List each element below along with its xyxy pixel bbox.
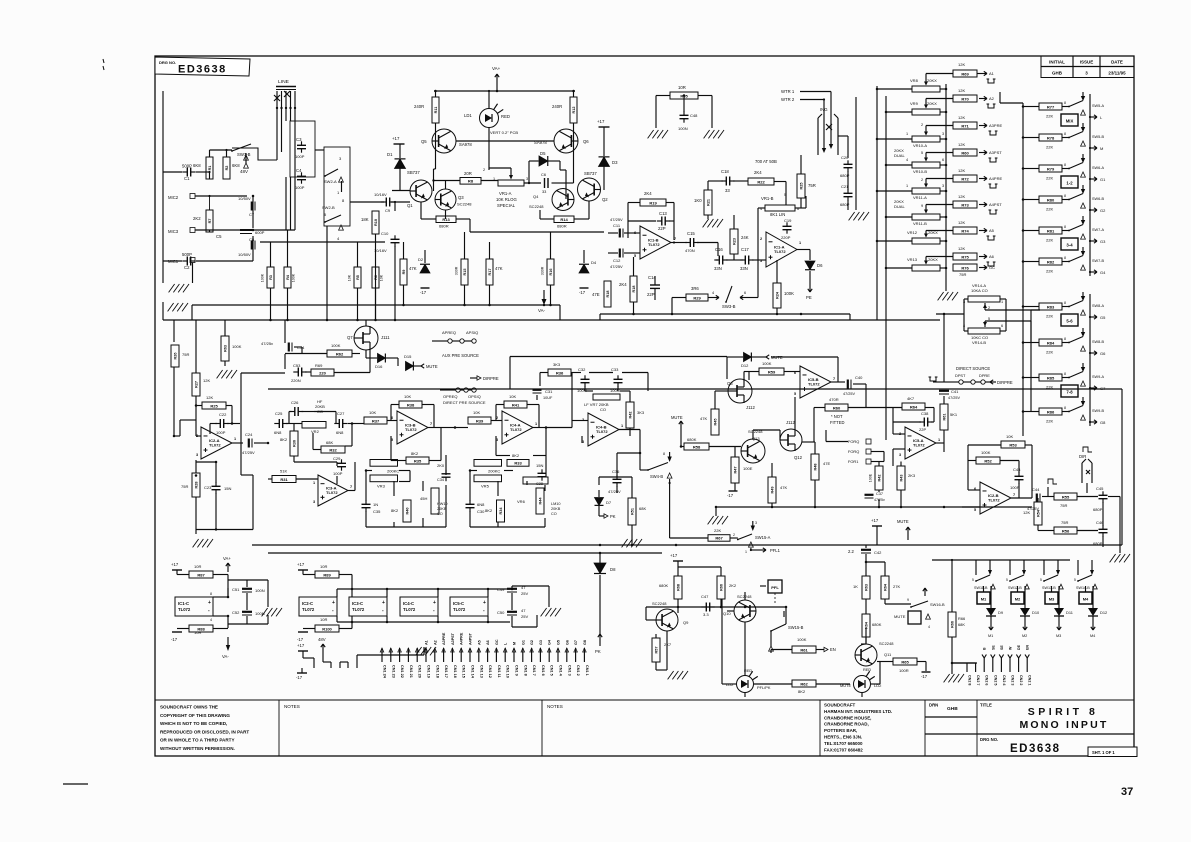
wire led bank feed (951, 559, 953, 612)
wire led bank top rail (932, 559, 1070, 561)
connector CN2 labels (968, 644, 1032, 686)
svg-text:-: - (382, 608, 384, 614)
svg-text:IC5-C: IC5-C (453, 601, 464, 606)
line connector bar (276, 86, 296, 88)
svg-text:DIRPRE: DIRPRE (483, 376, 499, 381)
svg-text:R58: R58 (693, 444, 701, 449)
ground C51 (262, 608, 282, 616)
op-amp IC3-A (313, 475, 352, 506)
svg-text:+: + (332, 600, 335, 606)
svg-text:TL072: TL072 (596, 429, 608, 434)
svg-text:G6: G6 (565, 640, 569, 645)
transistor Q10 (734, 600, 756, 622)
wire led row (722, 599, 850, 684)
junction at 497,91 (496, 90, 499, 93)
svg-text:R31: R31 (280, 477, 288, 482)
svg-text:6: 6 (744, 291, 746, 295)
capacitor C15 (685, 238, 698, 247)
capacitor C33 (614, 375, 623, 386)
wire R85 row (1022, 376, 1069, 378)
svg-text:R100: R100 (322, 626, 332, 631)
wire G5 exit (1089, 315, 1097, 319)
arrow SW3-B right (740, 295, 747, 299)
svg-text:R5: R5 (356, 275, 360, 280)
svg-text:C19: C19 (784, 218, 792, 223)
svg-text:C40: C40 (855, 375, 863, 380)
svg-text:47/25v: 47/25v (261, 341, 273, 346)
svg-text:VA-: VA- (222, 654, 229, 659)
capacitor C19 (783, 222, 792, 233)
svg-text:G8: G8 (1100, 420, 1106, 425)
svg-text:10K: 10K (473, 410, 480, 415)
svg-text:10UF: 10UF (543, 396, 553, 400)
arrow DIRPRE eq (470, 376, 481, 380)
margin tick bottom-left (63, 783, 88, 785)
triangle SW6-A (1081, 172, 1086, 177)
pot VR14-B (968, 328, 1000, 334)
svg-text:100K: 100K (292, 273, 296, 282)
svg-text:8: 8 (1064, 132, 1066, 136)
resistor R22 (748, 178, 774, 185)
title band divider 4 (924, 700, 926, 756)
ground C49 (541, 608, 561, 616)
junction at 1023,411.5 (1022, 410, 1025, 413)
svg-text:LD1: LD1 (464, 113, 472, 118)
svg-text:24K: 24K (741, 235, 749, 240)
wire direct glyph stub (933, 381, 944, 383)
svg-text:240R: 240R (552, 104, 562, 109)
pot VR11-B (912, 207, 940, 220)
rail +17 D3 (599, 126, 610, 128)
op-amp IC3-C (349, 597, 387, 616)
svg-text:8K2: 8K2 (280, 437, 288, 442)
svg-text:2K0: 2K0 (437, 463, 445, 468)
wire IC2-A output (174, 420, 243, 443)
switch SW7-A (1068, 225, 1083, 232)
wire R83 row (1022, 305, 1069, 307)
switch SW3-B (725, 286, 732, 303)
svg-text:2: 2 (760, 237, 762, 241)
power VA- b (226, 637, 230, 651)
svg-text:1K: 1K (853, 584, 858, 589)
pot VR13 (912, 258, 940, 271)
svg-text:7: 7 (833, 377, 835, 381)
net glyph direct (929, 377, 938, 381)
svg-text:LINE: LINE (278, 79, 290, 85)
svg-text:10R: 10R (320, 617, 327, 622)
svg-text:R62: R62 (800, 681, 808, 686)
junction at 1023,342.5 (1022, 341, 1025, 344)
resistor R31 (272, 476, 296, 483)
svg-text:47/25V: 47/25V (948, 396, 961, 400)
svg-text:DIRECT PRE SOURCE: DIRECT PRE SOURCE (443, 400, 486, 405)
svg-text:G2: G2 (1100, 208, 1106, 213)
junction at 228,597 (227, 596, 230, 599)
svg-text:6K8: 6K8 (232, 163, 240, 168)
svg-text:10K RLOG: 10K RLOG (496, 197, 517, 202)
ground output (1110, 554, 1130, 562)
connector CN1 labels (383, 665, 589, 679)
junction at 1023,168.5 (1022, 167, 1025, 170)
svg-text:R36: R36 (556, 370, 564, 375)
svg-text:68K: 68K (326, 440, 333, 445)
svg-text:680R: 680R (557, 224, 567, 229)
junction at 387,589 (386, 588, 389, 591)
svg-text:CN1 13: CN1 13 (479, 665, 483, 678)
svg-text:SW7-B: SW7-B (1092, 259, 1104, 263)
wire G6 exit (1089, 351, 1097, 355)
svg-text:R7: R7 (208, 219, 212, 224)
svg-text:SW11-B: SW11-B (974, 586, 988, 590)
svg-text:R45: R45 (713, 419, 717, 426)
svg-text:R26: R26 (173, 353, 177, 360)
wire Q5 Q2 collectors (434, 129, 574, 199)
jumper APREQ/APSIQ (432, 339, 476, 343)
wire R55 row (1042, 487, 1098, 497)
wire R11 column (435, 91, 437, 129)
capacitor C26 (290, 407, 303, 416)
svg-text:47/25V: 47/25V (610, 217, 623, 222)
capacitor C24 (249, 439, 252, 448)
svg-text:R69: R69 (961, 71, 969, 76)
capacitor C14 22P (650, 276, 660, 300)
wire R87 row (177, 570, 228, 597)
capacitor C1 (182, 168, 195, 177)
junction at 1023,377.5 (1022, 376, 1025, 379)
svg-text:10/16V: 10/16V (374, 248, 387, 253)
svg-text:VR10-A: VR10-A (913, 143, 927, 148)
svg-text:R19: R19 (649, 200, 657, 205)
svg-text:MUTE: MUTE (840, 683, 851, 688)
svg-text:220N: 220N (291, 378, 301, 383)
wire R61 column (943, 396, 945, 452)
resistor R88 (189, 625, 213, 632)
svg-text:C47: C47 (701, 594, 709, 599)
svg-text:7: 7 (674, 237, 676, 241)
svg-text:VA-: VA- (538, 308, 545, 313)
svg-text:CN1 20: CN1 20 (418, 665, 422, 678)
svg-text:R21: R21 (706, 199, 710, 206)
junction box 3-4 (1061, 238, 1078, 250)
svg-text:G8: G8 (583, 640, 587, 645)
svg-text:R43: R43 (899, 475, 903, 482)
wire C20 C21 column (848, 97, 856, 210)
svg-text:TL072: TL072 (988, 497, 1000, 502)
ground ING (849, 212, 869, 220)
svg-text:CN1 21: CN1 21 (409, 665, 413, 678)
svg-text:+17: +17 (171, 562, 179, 567)
svg-text:GC: GC (495, 639, 499, 645)
svg-text:Q1: Q1 (407, 203, 413, 208)
wire SW8-B pole (1081, 328, 1085, 337)
arrow mute down (679, 421, 683, 431)
switch SW5-A (1068, 101, 1083, 108)
svg-text:1: 1 (745, 550, 747, 554)
capacitor C46 (1099, 525, 1108, 536)
pot VR1-A (498, 180, 524, 186)
wire R79 row (1022, 167, 1069, 169)
svg-text:R60: R60 (833, 405, 841, 410)
rail +17 b (298, 569, 308, 571)
wire routing bus vertical 2 (1030, 310, 1032, 412)
junction at 815,507 (814, 506, 817, 509)
svg-text:CN1 19: CN1 19 (427, 665, 431, 678)
resistor R53 (1001, 441, 1025, 448)
svg-text:R87: R87 (197, 572, 205, 577)
svg-text:8: 8 (1064, 406, 1066, 410)
svg-text:R72: R72 (961, 176, 969, 181)
svg-text:2K7: 2K7 (664, 642, 672, 647)
wire LD3 to Q11 (871, 662, 880, 684)
svg-text:SW2-A: SW2-A (324, 179, 337, 184)
svg-text:+: + (208, 600, 211, 606)
wire G7 exit (1089, 386, 1097, 390)
svg-text:37: 37 (1121, 786, 1133, 798)
svg-text:100E: 100E (869, 473, 873, 482)
svg-text:FORQ: FORQ (848, 439, 859, 444)
svg-text:DIRECT SOURCE: DIRECT SOURCE (956, 366, 990, 371)
wire D12 tail (1091, 622, 1095, 630)
svg-text:100K: 100K (762, 361, 772, 366)
capacitor C37 (865, 495, 874, 498)
wire IC4-A loops (455, 405, 546, 456)
svg-text:5K1: 5K1 (950, 412, 958, 417)
wire C16 C17 row (716, 259, 743, 261)
svg-text:G2: G2 (530, 640, 534, 645)
junction at 877,139 (876, 138, 879, 141)
svg-text:10K: 10K (348, 274, 352, 281)
wire Q7 top (285, 320, 366, 369)
svg-text:IC3-C: IC3-C (352, 601, 363, 606)
svg-text:SB737: SB737 (407, 170, 420, 175)
net arrow A6 (979, 254, 987, 258)
svg-text:M1: M1 (988, 634, 993, 638)
wire R26 column (173, 320, 175, 436)
triangle MUTE box (926, 614, 931, 619)
pot VR10-B (912, 155, 940, 168)
svg-text:3: 3 (899, 453, 901, 457)
svg-text:G4: G4 (1100, 270, 1106, 275)
svg-text:R8: R8 (468, 179, 474, 184)
svg-text:8: 8 (1064, 194, 1066, 198)
wire R100 row (303, 622, 352, 629)
junction at 886,268 (885, 267, 888, 270)
op-amp IC4-C (400, 597, 438, 616)
svg-text:1: 1 (234, 437, 236, 441)
svg-text:VR1-B: VR1-B (761, 196, 774, 201)
svg-text:D4: D4 (591, 260, 597, 265)
svg-text:Q2: Q2 (602, 197, 608, 202)
svg-text:2K4: 2K4 (644, 191, 652, 196)
svg-text:SW12-B: SW12-B (1008, 586, 1022, 590)
capacitor C23 (212, 482, 221, 493)
svg-text:R4: R4 (286, 274, 290, 280)
resistor R27 (192, 373, 200, 396)
svg-text:CN1 23: CN1 23 (391, 665, 395, 678)
svg-text:68K: 68K (958, 622, 965, 627)
junction at 1023,306.5 (1022, 305, 1025, 308)
svg-text:CN1 17: CN1 17 (444, 665, 448, 678)
wire SW14-B drop (1078, 560, 1094, 575)
svg-text:VA+: VA+ (223, 556, 231, 561)
arrow MUTE ic5 (752, 355, 769, 359)
resistor R2 (223, 157, 230, 179)
resistor R24 (773, 283, 781, 308)
junction at 488,622 (487, 621, 490, 624)
capacitor C38 (919, 418, 932, 427)
wire R5 R6 columns (358, 242, 376, 320)
svg-text:R64: R64 (864, 621, 868, 629)
svg-text:CN1 2: CN1 2 (576, 665, 580, 676)
rail -17 q11 (922, 671, 931, 673)
svg-text:CN1 22: CN1 22 (400, 665, 404, 678)
junction at 352,589 (351, 588, 354, 591)
switch box SW2-A/B outline (324, 147, 350, 226)
svg-text:C6: C6 (541, 172, 546, 177)
svg-text:R61: R61 (800, 647, 808, 652)
svg-text:10R: 10R (320, 564, 327, 569)
rail +17 pfl (673, 560, 683, 562)
wire rail bottom long (163, 319, 940, 321)
svg-text:-17: -17 (921, 674, 928, 679)
svg-text:G1: G1 (521, 640, 525, 645)
junction at 357.5,320 (356, 319, 359, 322)
wire Q11 links (866, 628, 926, 671)
wire PFL box dashes (760, 586, 775, 604)
svg-text:22K: 22K (1046, 314, 1053, 319)
svg-text:C12: C12 (613, 258, 621, 263)
net glyph A5 (987, 236, 996, 240)
wire C24 to EQ (254, 442, 268, 444)
svg-text:EN: EN (1026, 645, 1030, 650)
svg-text:8: 8 (1064, 301, 1066, 305)
drg-no box top-left (155, 57, 250, 76)
wire G1 exit (1089, 177, 1097, 181)
capacitor C31 (533, 390, 542, 393)
svg-text:3: 3 (1085, 70, 1088, 75)
svg-text:7: 7 (1013, 493, 1015, 497)
svg-text:100K: 100K (981, 450, 991, 455)
svg-text:1-2: 1-2 (1066, 181, 1073, 186)
wire R80 row (1022, 198, 1069, 200)
svg-text:3: 3 (755, 521, 757, 525)
svg-text:R47: R47 (733, 467, 737, 474)
junction at 232,423.5 (231, 422, 234, 425)
diode D2 (420, 264, 430, 273)
svg-text:Q11: Q11 (884, 652, 892, 657)
junction at 946,191 (945, 190, 948, 193)
resistor R71 (953, 122, 977, 129)
wire EQ feed left vertical (240, 373, 242, 475)
svg-text:MIX: MIX (1066, 119, 1074, 124)
svg-text:ED3638: ED3638 (1010, 743, 1061, 755)
junction at 721,607 (720, 606, 723, 609)
junction at 944,314 (943, 313, 946, 316)
svg-text:C24: C24 (245, 432, 253, 437)
svg-text:VR13: VR13 (907, 257, 918, 262)
diode D16 (378, 354, 386, 363)
svg-text:R2: R2 (225, 166, 229, 171)
switch SW6-A (1068, 163, 1083, 170)
svg-text:7: 7 (350, 485, 352, 489)
svg-text:47: 47 (521, 608, 526, 613)
svg-text:6N8: 6N8 (336, 430, 344, 435)
wire D6 to PE (809, 271, 811, 284)
svg-text:20KB: 20KB (551, 507, 561, 511)
svg-text:M2: M2 (1015, 597, 1021, 602)
svg-text:CN2 7: CN2 7 (976, 675, 980, 685)
svg-text:HARMAN INT. INDUSTRIES LTD.: HARMAN INT. INDUSTRIES LTD. (824, 709, 892, 714)
svg-text:12K: 12K (958, 62, 965, 67)
junction at 375.5,320 (374, 319, 377, 322)
capacitor C12 (620, 249, 623, 258)
junction at 801,314 (800, 313, 803, 316)
switch SW8-A (1068, 301, 1083, 308)
svg-text:SC2248: SC2248 (879, 641, 894, 646)
capacitor C4 (297, 172, 306, 183)
svg-text:75R: 75R (1060, 503, 1067, 508)
svg-text:C51: C51 (232, 587, 240, 592)
wire M3 drop (1052, 586, 1060, 602)
junction at 435.5,91 (434, 90, 437, 93)
resistor R18b 47E (604, 281, 611, 307)
svg-text:G1: G1 (1100, 177, 1106, 182)
wire DIR drop (1086, 483, 1088, 493)
svg-text:D2: D2 (418, 257, 424, 262)
wire R48 column (802, 442, 815, 507)
svg-text:SW4-B: SW4-B (650, 474, 663, 479)
polarity x marks (274, 91, 290, 101)
wire pfl mid rail (646, 606, 786, 608)
resistor R62 (327, 350, 352, 357)
svg-text:680P: 680P (1093, 541, 1103, 546)
svg-text:22P: 22P (647, 292, 655, 297)
svg-text:R75: R75 (961, 254, 969, 259)
svg-text:VR8: VR8 (910, 78, 919, 83)
led D9 (986, 602, 996, 622)
svg-text:R18: R18 (632, 286, 636, 293)
junction at 678,607 (677, 606, 680, 609)
svg-text:FORQ: FORQ (848, 449, 859, 454)
svg-text:1: 1 (337, 190, 340, 195)
svg-text:3: 3 (339, 156, 342, 161)
svg-text:-17: -17 (579, 290, 586, 295)
wire R56 row (1038, 530, 1098, 532)
svg-text:8: 8 (1064, 256, 1066, 260)
ground aux R (217, 370, 237, 378)
pot 200KC hf (370, 460, 398, 467)
jfet Q12 (780, 429, 802, 451)
resistor R67 (708, 535, 730, 542)
rail +17 D1 (394, 143, 405, 145)
wire routing bus vertical (1022, 103, 1024, 436)
resistor R39 (468, 417, 491, 424)
resistor R47 (731, 457, 739, 483)
wire mix bus vertical upper (1089, 94, 1091, 276)
op-amp IC5-C (450, 597, 488, 616)
wire D3 column (603, 127, 605, 190)
svg-text:J112: J112 (746, 405, 756, 410)
svg-text:R61: R61 (942, 414, 946, 421)
jack DIR symbol (1082, 459, 1092, 483)
svg-text:12K: 12K (958, 220, 965, 225)
svg-text:D12: D12 (741, 363, 749, 368)
svg-text:MIC3: MIC3 (168, 229, 179, 234)
svg-text:Q7: Q7 (347, 335, 353, 340)
ground rail left (168, 303, 188, 311)
junction box M1 (977, 592, 990, 604)
svg-text:1N: 1N (373, 502, 378, 507)
